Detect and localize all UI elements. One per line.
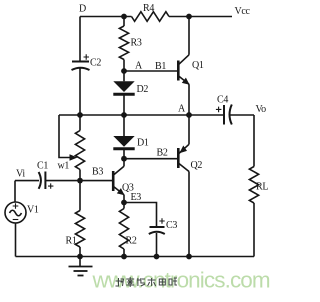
resistor R1: [66, 181, 85, 257]
resistor RL (load): [249, 115, 268, 257]
node junction D1/Q3 collector/B2: [121, 156, 127, 162]
node junction top rail / R3: [121, 14, 127, 20]
wire node A to Q1 base (B1): [124, 70, 178, 72]
caption 功率放大电路 (drawn strokes): [116, 278, 124, 286]
svg-text:Vcc: Vcc: [235, 6, 251, 17]
svg-text:R2: R2: [126, 236, 137, 247]
input source V1 (AC): [5, 181, 39, 257]
svg-text:B3: B3: [92, 167, 103, 178]
resistor R2: [119, 203, 136, 257]
node E3: [121, 200, 127, 206]
svg-text:R3: R3: [131, 38, 142, 49]
wire bottom ground rail: [16, 256, 255, 258]
node A (bias top): [121, 68, 127, 74]
svg-text:V1: V1: [27, 205, 39, 216]
resistor R4: [132, 12, 170, 22]
svg-text:C2: C2: [90, 58, 101, 69]
svg-text:E3: E3: [131, 192, 142, 203]
svg-text:D: D: [79, 4, 86, 15]
wire top rail right segment (R4 to Vcc): [169, 16, 232, 18]
transistor Q2 (PNP): [178, 115, 202, 257]
potentiometer w1 body: [79, 115, 81, 131]
svg-text:w1: w1: [58, 161, 70, 172]
svg-text:R1: R1: [66, 236, 77, 247]
svg-text:C3: C3: [166, 220, 177, 231]
svg-text:C1: C1: [37, 161, 48, 172]
capacitor C3 (polarized, bypass): [124, 203, 177, 257]
node A (output): [186, 112, 192, 118]
svg-text:C4: C4: [217, 95, 228, 106]
node junction top rail / Q1 collector: [186, 14, 192, 20]
node junction rail/R1(ground): [77, 254, 83, 260]
node junction D2/D1 midpoint: [121, 112, 127, 118]
node junction rail/R2: [121, 254, 127, 260]
transistor Q1 (NPN): [178, 17, 204, 116]
potentiometer w1 wiper arm: [59, 115, 70, 158]
svg-text:B1: B1: [155, 61, 166, 72]
svg-text:RL: RL: [256, 182, 268, 193]
wire R3 top stub: [123, 17, 125, 27]
svg-text:B2: B2: [157, 148, 168, 159]
svg-text:R4: R4: [143, 3, 154, 14]
svg-text:A: A: [135, 61, 143, 72]
svg-text:Q2: Q2: [191, 160, 203, 171]
svg-text:Vo: Vo: [256, 104, 267, 115]
svg-text:Q1: Q1: [192, 60, 204, 71]
wire B2 (to Q2 base): [124, 158, 178, 160]
wire mid-bias horizontal (pot top to output node): [59, 114, 189, 116]
svg-text:A: A: [178, 104, 186, 115]
svg-text:D1: D1: [137, 138, 149, 149]
diode D2: [113, 71, 148, 115]
wire top rail left segment (D node to R4): [80, 16, 132, 18]
node junction rail/C3: [154, 254, 160, 260]
resistor R3: [119, 26, 128, 60]
capacitor C4 (polarized, output coupling): [189, 95, 254, 125]
wire C1 to Q3 base (B3): [45, 180, 113, 182]
wire R3 bottom to node A1: [123, 60, 125, 72]
capacitor C2 (polarized): [72, 54, 102, 70]
node junction pot/bootstrap: [77, 112, 83, 118]
diode D1: [113, 115, 149, 159]
svg-text:D2: D2: [137, 84, 149, 95]
wire left vertical from D to C2: [79, 17, 81, 62]
node B3: [77, 178, 83, 184]
wire Vi to C1: [15, 180, 39, 182]
wire C2 bottom to mid-bias wire: [79, 69, 81, 116]
node junction rail/Q2 collector: [186, 254, 192, 260]
ground symbol: [69, 257, 93, 276]
capacitor C1 (polarized, input coupling): [37, 161, 53, 190]
transistor Q3 (NPN driver): [113, 159, 134, 203]
svg-text:Vi: Vi: [16, 169, 25, 180]
